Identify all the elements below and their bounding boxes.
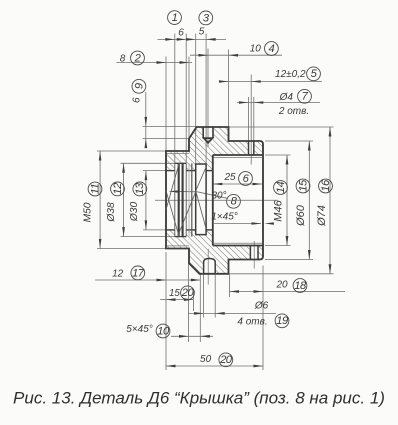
svg-text:M50: M50 <box>83 202 94 222</box>
svg-text:Ø30: Ø30 <box>129 202 140 223</box>
svg-text:2 отв.: 2 отв. <box>278 106 309 117</box>
svg-text:10: 10 <box>250 44 262 55</box>
svg-text:1×45°: 1×45° <box>211 212 238 223</box>
svg-text:20: 20 <box>219 354 233 366</box>
svg-text:4: 4 <box>269 43 275 55</box>
svg-text:50: 50 <box>200 354 212 365</box>
svg-text:17: 17 <box>132 267 145 279</box>
svg-text:20: 20 <box>181 287 195 299</box>
svg-text:12: 12 <box>112 182 124 195</box>
svg-text:M46: M46 <box>273 199 285 221</box>
svg-text:8: 8 <box>120 53 126 64</box>
svg-text:19: 19 <box>276 315 288 327</box>
svg-text:13: 13 <box>134 182 146 195</box>
svg-text:12±0,2: 12±0,2 <box>275 69 306 80</box>
svg-text:Ø38: Ø38 <box>106 202 117 223</box>
svg-text:25: 25 <box>223 172 236 183</box>
svg-text:12: 12 <box>112 269 124 280</box>
svg-text:Ø60: Ø60 <box>295 204 307 227</box>
svg-text:9: 9 <box>133 83 145 89</box>
svg-text:15: 15 <box>297 179 309 192</box>
svg-text:14: 14 <box>275 182 287 194</box>
svg-text:16: 16 <box>320 179 332 192</box>
svg-text:11: 11 <box>89 183 101 194</box>
svg-text:Ø6: Ø6 <box>254 300 269 311</box>
svg-text:Ø4: Ø4 <box>279 92 294 103</box>
svg-text:Ø74: Ø74 <box>316 205 328 227</box>
svg-text:1: 1 <box>172 12 178 24</box>
svg-text:5: 5 <box>199 27 205 38</box>
svg-text:20: 20 <box>275 279 288 290</box>
svg-text:10: 10 <box>157 325 170 337</box>
svg-text:4 отв.: 4 отв. <box>237 317 267 328</box>
svg-text:15: 15 <box>169 288 180 299</box>
svg-text:18: 18 <box>294 280 307 292</box>
svg-text:6: 6 <box>178 27 184 38</box>
svg-text:5×45°: 5×45° <box>126 324 153 335</box>
svg-text:6: 6 <box>132 97 143 103</box>
svg-text:Рис. 13. Деталь Д6 “Крышка” (п: Рис. 13. Деталь Д6 “Крышка” (поз. 8 на р… <box>13 389 385 408</box>
